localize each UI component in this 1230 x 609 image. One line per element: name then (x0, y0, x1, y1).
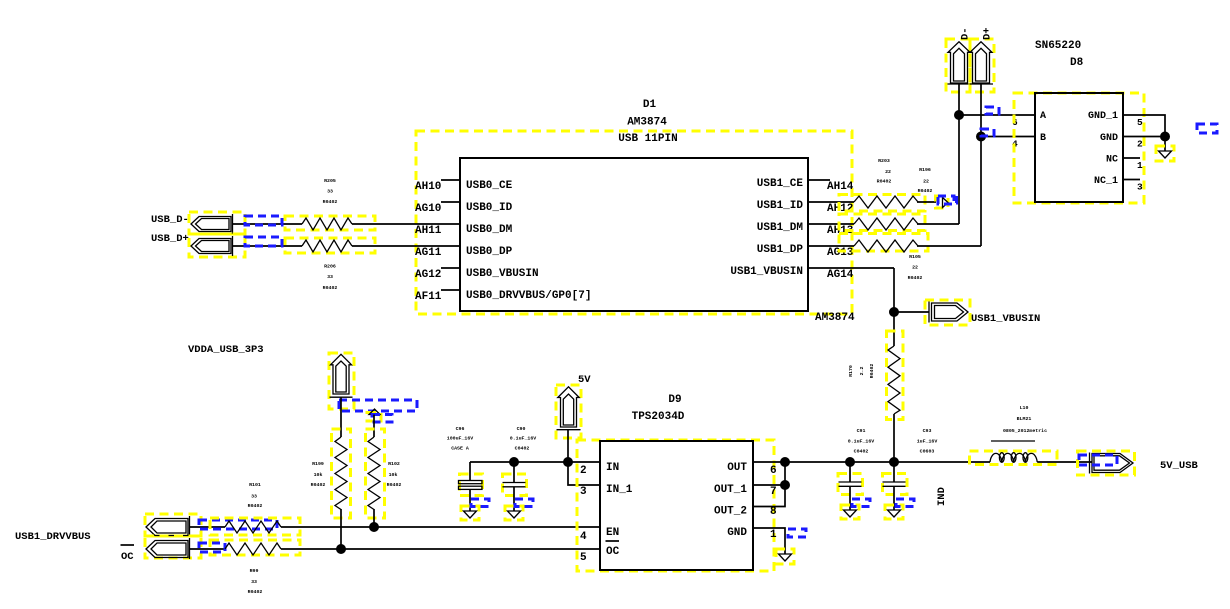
op-amp U1: IC D1 AM3874 USB 11PIN (416, 99, 855, 324)
wire arrow to R102 (373, 415, 375, 438)
svg-text:100uF_16V: 100uF_16V (447, 436, 473, 442)
svg-text:C90: C90 (517, 426, 526, 432)
wire R102 to EN net (373, 509, 375, 527)
svg-text:USB0_CE: USB0_CE (466, 180, 513, 192)
svg-text:0.1uF_16V: 0.1uF_16V (510, 436, 536, 442)
inductor L10 (970, 405, 1058, 465)
svg-text:6: 6 (770, 465, 777, 477)
wire R105 to D+ column (917, 245, 981, 247)
svg-text:C93: C93 (923, 428, 932, 434)
svg-text:AG12: AG12 (415, 269, 441, 281)
pin AG12 (415, 268, 460, 281)
svg-text:BLM21: BLM21 (1017, 416, 1032, 422)
svg-text:R101: R101 (249, 482, 261, 488)
junction R199 on OC net (336, 544, 346, 554)
ground at C96 (461, 499, 489, 520)
svg-text:AH11: AH11 (415, 225, 442, 237)
svg-text:USB1_VBUSIN: USB1_VBUSIN (730, 266, 803, 278)
svg-text:SN65220: SN65220 (1035, 40, 1081, 52)
svg-text:USB0_DRVVBUS/GP0[7]: USB0_DRVVBUS/GP0[7] (466, 290, 591, 302)
pin 2 GND (1123, 137, 1165, 150)
wire junction to connector (894, 311, 929, 313)
capacitor C90 (503, 426, 537, 511)
node OC (121, 545, 135, 563)
svg-text:USB1_DP: USB1_DP (757, 244, 804, 256)
svg-text:5: 5 (580, 552, 587, 564)
svg-text:GND: GND (1100, 133, 1118, 144)
svg-text:22: 22 (885, 169, 891, 175)
op-amp U2: IC D8 SN65220 (1014, 40, 1144, 203)
connector USB1_VBUSIN (925, 300, 970, 325)
power connector VDDA_USB_3P3 (329, 353, 354, 409)
svg-text:1: 1 (1137, 160, 1143, 171)
svg-text:AM3874: AM3874 (815, 312, 855, 324)
svg-text:R0402: R0402 (248, 503, 263, 509)
net highlight DRVVBUS (199, 520, 277, 529)
net highlight right of D8 (1197, 124, 1217, 133)
svg-text:R205: R205 (324, 178, 336, 184)
svg-text:R0402: R0402 (387, 482, 402, 488)
svg-text:0805_2012metric: 0805_2012metric (1003, 428, 1047, 434)
svg-text:AG13: AG13 (827, 247, 854, 259)
svg-text:3: 3 (580, 486, 587, 498)
svg-text:R0402: R0402 (869, 364, 875, 379)
op-amp U3: IC D9 TPS2034D (577, 394, 774, 571)
net highlight A (986, 107, 999, 114)
junction GND net (1160, 132, 1170, 142)
wire R199 to OC net (340, 509, 342, 549)
connector J_OC (145, 536, 201, 559)
pin AH10 (415, 180, 460, 193)
svg-text:0.1uF_16V: 0.1uF_16V (848, 439, 874, 445)
svg-text:C96: C96 (456, 426, 465, 432)
svg-text:GND: GND (727, 527, 747, 539)
connector J_USB1_DRVVBUS (145, 514, 201, 537)
wire DRVVBUS to R101 (190, 526, 225, 528)
svg-text:1: 1 (770, 529, 777, 541)
net highlight B (981, 129, 994, 136)
wire net A (959, 114, 1035, 116)
resistor R170 (848, 331, 903, 420)
junction on net B (976, 132, 986, 142)
junction OUT (780, 457, 790, 467)
ground at C90 (505, 499, 533, 520)
pin AG13 (808, 246, 854, 259)
svg-text:R170: R170 (848, 365, 854, 377)
svg-text:AH14: AH14 (827, 181, 854, 193)
svg-text:OUT_2: OUT_2 (714, 506, 747, 518)
wire GND stub D9 (753, 528, 785, 554)
connector 5V_USB (1078, 451, 1135, 475)
svg-text:22: 22 (912, 265, 918, 271)
svg-text:USB0_VBUSIN: USB0_VBUSIN (466, 268, 539, 280)
svg-text:USB1_CE: USB1_CE (757, 178, 804, 190)
svg-text:R0402: R0402 (918, 188, 933, 194)
svg-text:C0402: C0402 (854, 449, 869, 455)
junction C90 on IN (509, 457, 519, 467)
resistor R205 (285, 178, 375, 230)
svg-text:2.2: 2.2 (859, 367, 865, 376)
svg-text:2: 2 (1137, 139, 1143, 150)
junction OUT_1 (780, 480, 790, 490)
svg-text:IN_1: IN_1 (606, 484, 633, 496)
svg-text:R102: R102 (388, 461, 400, 467)
svg-text:IN: IN (606, 462, 619, 474)
node arrow up at R102 (367, 409, 392, 422)
pin AF11 (415, 290, 460, 303)
svg-text:R206: R206 (324, 264, 336, 270)
wire net B (981, 136, 1035, 138)
ground symbol at D8 (1156, 146, 1174, 161)
svg-text:B: B (1040, 133, 1046, 144)
wire IN net (470, 461, 600, 463)
svg-text:EN: EN (606, 527, 619, 539)
svg-text:22: 22 (923, 179, 929, 185)
svg-text:OUT: OUT (727, 462, 747, 474)
wire R196 to D- column (917, 223, 959, 225)
power connector 5V (556, 385, 581, 438)
node arrow USB1_ID (936, 196, 957, 208)
svg-text:R199: R199 (312, 461, 324, 467)
svg-text:33: 33 (327, 189, 333, 195)
svg-text:USB_D-: USB_D- (151, 214, 189, 226)
pin AH14 (808, 180, 854, 193)
svg-text:33: 33 (327, 274, 333, 280)
wire USB_D- to R205 (233, 223, 303, 225)
connector J_USB_D+ (189, 234, 245, 257)
pin 1 NC (1123, 158, 1143, 171)
svg-text:AG14: AG14 (827, 269, 854, 281)
svg-text:1uF_16V: 1uF_16V (917, 439, 938, 445)
resistor R206 (285, 238, 375, 291)
wire AG14 down (893, 268, 895, 346)
svg-text:R0402: R0402 (323, 285, 338, 291)
resistor R196 (839, 167, 932, 231)
svg-text:D8: D8 (1070, 57, 1084, 69)
svg-text:USB0_ID: USB0_ID (466, 202, 513, 214)
svg-text:AM3874: AM3874 (627, 117, 667, 129)
capacitor C93 (883, 428, 938, 510)
resistor R203 (839, 158, 925, 211)
svg-text:R196: R196 (919, 167, 931, 173)
wire USB_D+ to R206 (233, 245, 303, 247)
pin AG11 (352, 246, 460, 259)
svg-text:D1: D1 (643, 99, 657, 111)
svg-text:R0402: R0402 (908, 275, 923, 281)
svg-text:USB1_DM: USB1_DM (757, 222, 804, 234)
svg-text:A: A (1040, 111, 1046, 122)
svg-text:OUT_1: OUT_1 (714, 484, 747, 496)
resistor R105 (839, 234, 928, 282)
svg-text:R105: R105 (909, 254, 921, 260)
net highlight OC (199, 543, 225, 552)
svg-text:R99: R99 (250, 568, 259, 574)
svg-text:D+: D+ (982, 27, 994, 40)
svg-text:5V: 5V (578, 374, 591, 386)
svg-text:5V_USB: 5V_USB (1160, 460, 1199, 472)
connector J_USB_D- (189, 212, 245, 234)
pin AG14 (808, 268, 894, 281)
svg-text:D9: D9 (668, 394, 681, 406)
svg-text:R0402: R0402 (311, 482, 326, 488)
capacitor C91 (838, 428, 874, 510)
junction R102 on EN net (369, 522, 379, 532)
svg-text:USB1_VBUSIN: USB1_VBUSIN (971, 313, 1040, 325)
svg-text:USB1_DRVVBUS: USB1_DRVVBUS (15, 531, 91, 543)
svg-text:AG10: AG10 (415, 203, 441, 215)
svg-text:33: 33 (251, 494, 257, 500)
svg-text:OC: OC (606, 546, 620, 558)
net highlight USB_D- (245, 216, 282, 225)
wire L10 to 5V_USB (1037, 461, 1092, 463)
svg-text:4: 4 (580, 531, 587, 543)
svg-text:OC: OC (121, 551, 134, 563)
pin AH13 (808, 224, 854, 237)
svg-text:TPS2034D: TPS2034D (632, 411, 685, 423)
wire VDDA to R199 (340, 397, 342, 437)
pin AH12 (808, 202, 854, 215)
junction C93 R170 (889, 457, 899, 467)
svg-text:AG11: AG11 (415, 247, 442, 259)
capacitor C96 (447, 426, 483, 511)
pin AG10 (415, 202, 460, 215)
wire OUT net (753, 461, 990, 463)
wire OC to R99 (190, 548, 225, 550)
net highlight USB_D+ (245, 237, 282, 246)
resistor R101 (210, 482, 300, 535)
wire R203 to arrow (917, 201, 936, 203)
wire D+ vertical (980, 84, 982, 246)
ground at C91 (841, 499, 870, 519)
svg-text:10k: 10k (389, 472, 398, 478)
svg-text:5: 5 (1137, 117, 1143, 128)
wire EN net (281, 526, 600, 528)
svg-text:USB0_DM: USB0_DM (466, 224, 513, 236)
svg-text:R0402: R0402 (323, 199, 338, 205)
svg-text:USB_D+: USB_D+ (151, 233, 189, 245)
svg-text:C0603: C0603 (920, 449, 935, 455)
svg-text:IND: IND (936, 487, 948, 506)
svg-text:33: 33 (251, 579, 257, 585)
svg-text:VDDA_USB_3P3: VDDA_USB_3P3 (188, 344, 264, 356)
svg-text:C91: C91 (857, 428, 866, 434)
svg-text:10k: 10k (314, 472, 323, 478)
svg-text:GND_1: GND_1 (1088, 111, 1118, 122)
resistor R99 (210, 540, 300, 595)
junction on net A (954, 110, 964, 120)
junction C91 (845, 457, 855, 467)
svg-text:L10: L10 (1020, 405, 1029, 411)
pin 3 NC_1 (1123, 180, 1143, 193)
wire OUT_2 stub (753, 462, 785, 507)
svg-text:2: 2 (580, 465, 587, 477)
resistor R199 (311, 429, 351, 518)
resistor R102 (366, 429, 402, 518)
svg-text:3: 3 (1137, 182, 1143, 193)
svg-text:R203: R203 (878, 158, 890, 164)
svg-text:AH10: AH10 (415, 181, 441, 193)
svg-text:USB0_DP: USB0_DP (466, 246, 513, 258)
junction USB1_VBUSIN (889, 307, 899, 317)
ground at D9 (776, 529, 806, 564)
wire R170 to OUT net (893, 414, 895, 462)
svg-text:NC_1: NC_1 (1094, 176, 1118, 187)
net highlight VDDA (339, 400, 417, 411)
wire 5V tail (567, 430, 569, 462)
connector D+ (970, 27, 995, 92)
pin AH11 (352, 224, 460, 237)
wire OUT_1 stub (753, 484, 785, 486)
wire IN_1 (568, 462, 600, 485)
svg-text:AF11: AF11 (415, 291, 442, 303)
svg-text:USB 11PIN: USB 11PIN (618, 133, 677, 145)
svg-text:R0402: R0402 (248, 589, 263, 595)
wire D- vertical (958, 84, 960, 224)
ground at C93 (885, 499, 914, 519)
svg-text:8: 8 (770, 506, 777, 518)
svg-text:C0402: C0402 (515, 446, 530, 452)
connector D- (946, 27, 972, 92)
svg-text:CASE A: CASE A (451, 446, 469, 452)
pin 5 GND_1 (1123, 115, 1165, 151)
junction 5V on IN (563, 457, 573, 467)
svg-text:NC: NC (1106, 155, 1118, 166)
svg-text:USB1_ID: USB1_ID (757, 200, 804, 212)
svg-text:7: 7 (770, 486, 777, 498)
wire OC net (281, 548, 600, 550)
svg-text:R0402: R0402 (877, 179, 892, 185)
